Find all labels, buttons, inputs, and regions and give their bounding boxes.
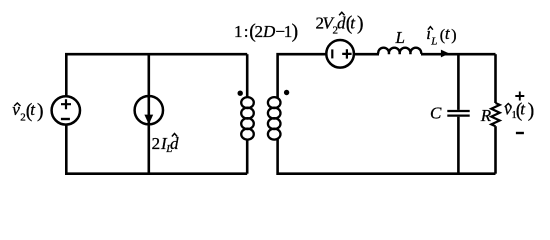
- wire left-loop top rail: [66, 54, 247, 96]
- current source arrowhead: [144, 115, 153, 125]
- wire primary top lead: [246, 54, 249, 98]
- svg-text:t: t: [30, 100, 36, 119]
- svg-text:v: v: [12, 100, 20, 119]
- label plus output: [515, 92, 524, 101]
- arrowhead iL current: [441, 50, 449, 58]
- plus sign inside v2 source: [61, 99, 71, 109]
- label v1(t): [504, 100, 534, 122]
- svg-text:): ): [357, 13, 364, 34]
- svg-text:): ): [37, 101, 44, 122]
- svg-text:): ): [528, 101, 535, 122]
- capacitor C plates: [447, 111, 469, 116]
- transformer secondary winding turn 3: [268, 118, 281, 129]
- voltage source v2 circle: [52, 96, 80, 124]
- svg-text:d: d: [170, 134, 179, 153]
- wire inductor to load: [421, 53, 496, 56]
- svg-text:t: t: [445, 24, 451, 43]
- svg-text:L: L: [430, 36, 437, 48]
- dot secondary polarity: [284, 90, 289, 95]
- svg-text:): ): [292, 21, 299, 42]
- resistor R zigzag: [491, 103, 499, 126]
- svg-text:1: 1: [234, 22, 243, 41]
- wire primary bottom lead: [246, 139, 249, 174]
- current source 2ILd circle: [135, 96, 163, 124]
- label 2V2d(t): [316, 12, 364, 36]
- minus sign inside v2 source: [61, 118, 70, 120]
- transformer primary winding turn 1: [241, 97, 254, 108]
- wire secondary top lead: [278, 54, 327, 98]
- svg-text:): ): [451, 27, 456, 44]
- wire capacitor bottom lead: [457, 117, 460, 174]
- svg-text:t: t: [350, 13, 356, 32]
- svg-text:R: R: [480, 106, 492, 125]
- label iL(t): [426, 24, 456, 48]
- svg-text:2: 2: [255, 22, 264, 41]
- transformer secondary winding turn 4: [268, 129, 281, 140]
- wire secondary bottom lead: [278, 139, 496, 174]
- svg-text:t: t: [520, 100, 526, 119]
- label 1:(2D-1): [234, 21, 298, 42]
- wire resistor top lead: [494, 54, 497, 103]
- transformer primary winding turn 3: [241, 118, 254, 129]
- svg-text:L: L: [395, 28, 405, 47]
- svg-text:2: 2: [152, 134, 161, 153]
- svg-text:C: C: [430, 104, 442, 123]
- transformer primary winding turn 4: [241, 129, 254, 140]
- inductor L winding: [378, 48, 421, 54]
- wire left-loop bottom rail: [66, 125, 247, 174]
- plus sign inside 2V2d source: [342, 49, 351, 58]
- transformer secondary winding turn 2: [268, 108, 281, 119]
- svg-text:D: D: [262, 22, 276, 41]
- wire resistor bottom lead: [494, 126, 497, 174]
- dot primary polarity: [238, 91, 243, 96]
- label 2ILd: [152, 134, 179, 156]
- svg-text::: :: [244, 22, 249, 41]
- transformer secondary winding turn 1: [268, 97, 281, 108]
- voltage source 2V2d circle: [326, 40, 354, 68]
- label minus output: [516, 132, 524, 134]
- label v2(t): [12, 100, 43, 124]
- wire current-source branch: [148, 54, 151, 174]
- svg-text:d: d: [337, 13, 346, 32]
- transformer primary winding turn 2: [241, 108, 254, 119]
- wire source to inductor: [354, 53, 379, 56]
- minus bar inside 2V2d source: [331, 49, 333, 58]
- wire capacitor top lead: [457, 54, 460, 110]
